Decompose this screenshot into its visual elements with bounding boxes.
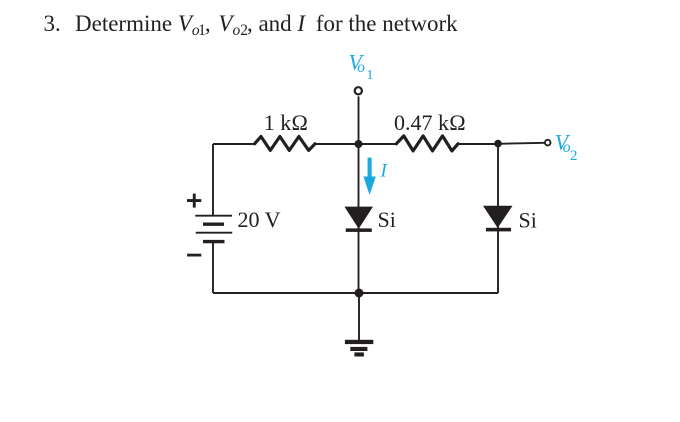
svg-text:20 V: 20 V [238,207,281,232]
svg-text:o: o [357,59,365,76]
svg-text:1: 1 [367,68,374,83]
svg-text:2: 2 [570,148,578,164]
svg-text:0.47 kΩ: 0.47 kΩ [394,110,466,135]
svg-text:Si: Si [519,208,537,233]
svg-text:Determine Vo1, Vo2, and I for: Determine Vo1, Vo2, and I for the networ… [75,11,458,39]
svg-text:1 kΩ: 1 kΩ [264,110,308,135]
svg-text:Si: Si [378,207,396,232]
svg-text:3.: 3. [44,11,61,36]
svg-text:I: I [380,161,389,182]
